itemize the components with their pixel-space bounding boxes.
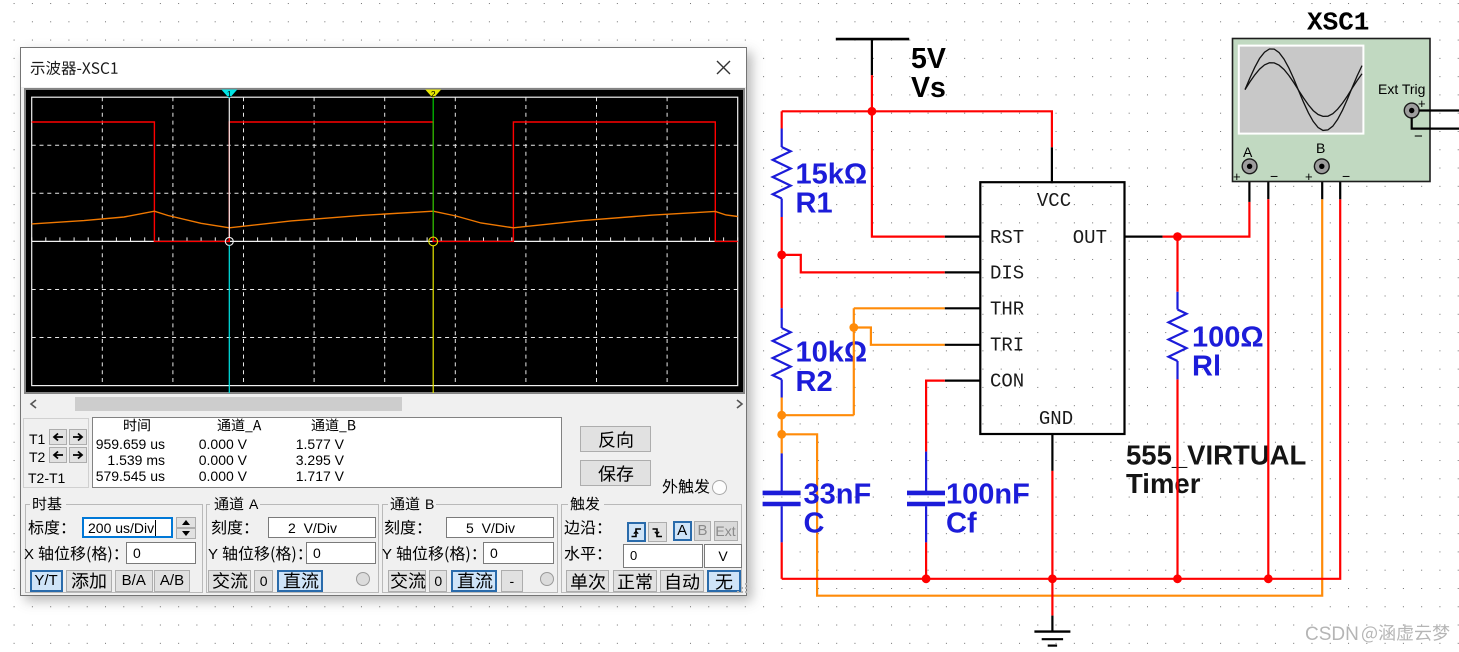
channel B capacitor wave (32, 211, 738, 228)
svg-text:2: 2 (431, 89, 436, 99)
svg-text:CON: CON (990, 371, 1024, 393)
svg-text:1: 1 (227, 89, 232, 99)
wire TRI jog (854, 328, 981, 345)
power supply Vs 5V (836, 39, 946, 111)
node junction Cf/bus (922, 574, 931, 583)
svg-text:Timer: Timer (1126, 468, 1201, 499)
svg-text:Ext Trig: Ext Trig (1378, 81, 1425, 97)
svg-text:A: A (1243, 144, 1253, 160)
svg-text:Rl: Rl (1192, 351, 1221, 383)
svg-text:XSC1: XSC1 (1307, 8, 1369, 38)
capacitor C 33nF (763, 453, 872, 578)
svg-text:RST: RST (990, 227, 1024, 249)
resistor R1 15k (773, 111, 867, 255)
svg-text:Vs: Vs (911, 72, 946, 104)
watermark CSDN (1305, 624, 1359, 646)
wire C top to scope B+ (bottom orange bus) (782, 199, 1322, 596)
svg-text:+: + (1305, 169, 1313, 184)
oscilloscope window XSC1 (20, 47, 747, 596)
svg-text:33nF: 33nF (804, 479, 872, 511)
wire scope B- (1326, 166, 1340, 199)
node junction OUT/Rl (1173, 232, 1182, 241)
resistor R2 10k (773, 255, 867, 398)
wire OUT net (1125, 172, 1250, 237)
op-amp/timer U1 555_VIRTUAL box (980, 182, 1124, 434)
channel A square wave (32, 122, 738, 241)
svg-text:100Ω: 100Ω (1192, 322, 1264, 354)
cursor 1 (228, 90, 230, 98)
wire GND pin to ground (1051, 434, 1053, 632)
wire VCC net top bus (782, 111, 1052, 183)
wire CON (926, 381, 981, 452)
node junction Rl/bus (1173, 574, 1182, 583)
svg-text:5V: 5V (911, 43, 946, 75)
value label 555_VIRTUAL Timer (1126, 440, 1306, 500)
cursor 2 (432, 90, 434, 98)
resistor Rl 100 ohm (1169, 237, 1264, 579)
svg-text:10kΩ: 10kΩ (796, 337, 868, 369)
svg-text:C: C (804, 508, 825, 540)
wire DIS (782, 255, 981, 273)
node junction R1-R2-DIS (777, 251, 786, 260)
wire scope B+ stub (1321, 172, 1323, 199)
wire scope A- (1254, 166, 1268, 579)
svg-text:TRI: TRI (990, 335, 1024, 357)
capacitor Cf 100nF (907, 452, 1030, 579)
wire R2 to C (781, 398, 783, 454)
wire THR (854, 308, 981, 415)
svg-text:B: B (1316, 140, 1325, 156)
svg-text:GND: GND (1039, 408, 1073, 430)
node junction R2/THR wire (777, 411, 786, 420)
svg-text:VCC: VCC (1037, 190, 1071, 212)
node junction GND/bus (1048, 574, 1057, 583)
node junction THR/TRI (849, 323, 858, 332)
ground (1034, 632, 1070, 646)
wire RST from top junction (872, 111, 981, 236)
svg-text:R1: R1 (796, 188, 833, 220)
svg-text:+: + (1233, 169, 1241, 184)
node junction C top / B+ net (777, 430, 786, 439)
svg-text:555_VIRTUAL: 555_VIRTUAL (1126, 440, 1306, 471)
oscilloscope XSC1 icon (1233, 39, 1459, 185)
node junction Vs/top bus (868, 107, 877, 116)
svg-text:−: − (1270, 168, 1278, 184)
svg-text:DIS: DIS (990, 263, 1024, 285)
svg-text:15kΩ: 15kΩ (796, 159, 868, 191)
node junction A-/bus (1264, 574, 1273, 583)
wire R2 bottom to THR column (782, 414, 854, 416)
svg-text:−: − (1414, 128, 1423, 145)
svg-text:R2: R2 (796, 366, 833, 398)
svg-text:+: + (1418, 96, 1426, 111)
wire ground bus bottom (782, 199, 1340, 579)
svg-text:Cf: Cf (946, 508, 977, 540)
svg-text:OUT: OUT (1073, 227, 1107, 249)
svg-text:100nF: 100nF (946, 479, 1030, 511)
svg-text:−: − (1342, 168, 1350, 184)
svg-text:THR: THR (990, 299, 1024, 321)
